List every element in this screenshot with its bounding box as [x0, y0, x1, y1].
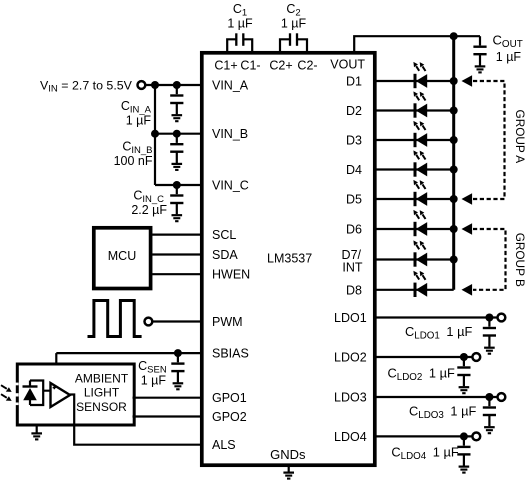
junction CLDO4 tap — [460, 432, 468, 440]
wire LDO1 — [375, 316, 497, 318]
svg-text:GNDs: GNDs — [270, 447, 306, 462]
capacitor CLDO3 with ground — [483, 397, 496, 433]
svg-text:HWEN: HWEN — [212, 268, 250, 282]
svg-text:GROUP B: GROUP B — [513, 233, 527, 287]
svg-text:LM3537: LM3537 — [267, 252, 312, 266]
LED D8 — [413, 271, 427, 297]
junction CIN_B tap — [173, 130, 181, 138]
wire MCU to SCL — [152, 234, 202, 236]
arrow group B top — [462, 223, 473, 235]
arrow group B bottom — [462, 284, 473, 296]
wire VIN bus vertical — [154, 85, 156, 185]
junction CSEN tap — [174, 349, 182, 357]
svg-text:1 µF: 1 µF — [281, 17, 307, 31]
LED D1 — [413, 62, 427, 88]
wire D5 — [375, 198, 454, 200]
junction D1 — [450, 77, 458, 85]
svg-text:LDO3: LDO3 — [334, 391, 367, 405]
ambient light sensor box — [17, 364, 134, 425]
LED D5 — [413, 180, 427, 206]
svg-text:SCL: SCL — [212, 228, 236, 242]
junction CIN_C tap — [173, 181, 181, 189]
svg-text:MCU: MCU — [108, 249, 136, 263]
node VIN input terminal — [138, 81, 146, 89]
junction D3 — [450, 136, 458, 144]
wire SBIAS — [56, 352, 202, 354]
svg-text:D2: D2 — [346, 104, 362, 118]
svg-text:LDO1: LDO1 — [334, 311, 367, 325]
svg-text:1 µF: 1 µF — [126, 114, 152, 128]
junction CIN_A tap — [173, 81, 181, 89]
MCU block — [94, 228, 151, 289]
wire GPO2 — [133, 415, 202, 417]
node LDO3 terminal — [498, 393, 506, 401]
LED D2 — [413, 91, 427, 117]
wire GPO1 — [133, 397, 202, 399]
svg-text:C2+: C2+ — [269, 59, 292, 73]
svg-text:1 µF: 1 µF — [141, 374, 167, 388]
sensor window dashed left edge — [15, 383, 19, 406]
wire VIN to VIN_A pin — [146, 84, 202, 86]
LED D6 — [413, 210, 427, 236]
svg-text:SENSOR: SENSOR — [76, 400, 127, 414]
wire D4 — [375, 168, 454, 170]
svg-text:LDO2: LDO2 — [334, 351, 367, 365]
wire PWM — [153, 320, 202, 322]
svg-text:VOUT: VOUT — [330, 58, 365, 72]
wire MCU to SDA — [152, 253, 202, 255]
LED D4 — [413, 150, 427, 176]
svg-text:1 µF: 1 µF — [496, 50, 522, 64]
capacitor CSEN with ground — [171, 353, 184, 389]
svg-text:D3: D3 — [346, 134, 362, 148]
LED D7 — [413, 240, 427, 266]
junction VIN bus — [151, 81, 159, 89]
svg-text:SDA: SDA — [212, 248, 238, 262]
node LDO4 terminal — [472, 433, 480, 441]
wire D2 — [375, 109, 454, 111]
wire LDO2 — [375, 356, 472, 358]
svg-text:C1-: C1- — [240, 59, 260, 73]
junction VOUT rail — [450, 32, 458, 40]
op-amp A1 in sensor — [51, 383, 71, 407]
capacitor C1 — [227, 33, 252, 52]
wire VIN_B — [155, 133, 202, 135]
wire VIN_C — [155, 184, 202, 186]
svg-text:VIN_C: VIN_C — [212, 179, 249, 193]
svg-text:VIN_B: VIN_B — [212, 127, 248, 141]
photodiode D_sensor — [23, 381, 51, 406]
junction D5 — [450, 195, 458, 203]
svg-text:AMBIENT: AMBIENT — [75, 372, 129, 386]
wire MCU to HWEN — [152, 273, 202, 275]
svg-text:2.2 µF: 2.2 µF — [131, 203, 167, 217]
junction D4 — [450, 166, 458, 174]
svg-text:C2-: C2- — [297, 59, 317, 73]
capacitor C2 — [280, 33, 307, 52]
capacitor COUT with ground — [473, 36, 486, 72]
svg-text:LIGHT: LIGHT — [84, 386, 120, 400]
junction D7 — [450, 256, 458, 264]
junction CLDO2 tap — [460, 353, 468, 361]
svg-text:INT: INT — [342, 261, 363, 275]
node LDO1 terminal — [498, 314, 506, 322]
svg-text:PWM: PWM — [212, 315, 243, 329]
wire amp output to ALS — [70, 395, 74, 427]
svg-text:C1+: C1+ — [214, 59, 237, 73]
wire SBIAS down to sensor — [55, 353, 57, 364]
group B dashed box — [473, 229, 506, 290]
wire LED rail — [452, 36, 455, 290]
PWM squarewave symbol — [88, 301, 142, 337]
wire D6 — [375, 228, 454, 230]
capacitor CLDO1 with ground — [483, 318, 496, 354]
LED D3 — [413, 121, 427, 147]
wire D7 — [375, 258, 454, 260]
light arrows into sensor — [1, 385, 12, 401]
ground sensor — [36, 426, 38, 433]
svg-text:ALS: ALS — [212, 438, 236, 452]
group A dashed box — [473, 81, 505, 199]
svg-text:D5: D5 — [346, 193, 362, 207]
svg-text:SBIAS: SBIAS — [212, 347, 249, 361]
IC U1 LM3537 body — [202, 53, 375, 465]
capacitor CLDO4 with ground — [457, 436, 470, 472]
arrow group A bottom — [462, 193, 473, 205]
junction CLDO3 tap — [485, 393, 493, 401]
junction D6 — [450, 225, 458, 233]
capacitor CIN_B with ground — [170, 134, 183, 170]
svg-text:LDO4: LDO4 — [334, 430, 367, 444]
op-amp plus input mark — [53, 386, 56, 389]
capacitor CIN_C with ground — [170, 185, 183, 221]
wire LDO3 — [375, 396, 497, 398]
svg-text:GPO2: GPO2 — [212, 410, 247, 424]
svg-text:D4: D4 — [346, 163, 362, 177]
node LDO2 terminal — [472, 353, 480, 361]
wire D1 — [375, 80, 454, 82]
ground GNDs pin — [288, 465, 290, 472]
junction bus at VIN_B — [151, 130, 159, 138]
junction CLDO1 tap — [485, 314, 493, 322]
wire D3 — [375, 139, 454, 141]
svg-text:D6: D6 — [346, 223, 362, 237]
svg-text:GPO1: GPO1 — [212, 391, 247, 405]
wire LDO4 — [375, 435, 472, 437]
node PWM input terminal — [145, 318, 153, 326]
capacitor CLDO2 with ground — [457, 357, 470, 393]
wire ALS — [74, 426, 202, 445]
svg-text:D1: D1 — [346, 75, 362, 89]
junction D2 — [450, 107, 458, 115]
wire D8 — [375, 289, 454, 291]
svg-text:100 nF: 100 nF — [114, 154, 153, 168]
svg-text:1 µF: 1 µF — [227, 17, 253, 31]
svg-text:D8: D8 — [346, 283, 362, 297]
arrow group A top — [462, 75, 473, 87]
wire VOUT to rail and COUT — [354, 36, 480, 53]
svg-text:VIN_A: VIN_A — [212, 79, 249, 93]
capacitor CIN_A with ground — [170, 85, 183, 121]
svg-text:GROUP A: GROUP A — [513, 110, 527, 164]
